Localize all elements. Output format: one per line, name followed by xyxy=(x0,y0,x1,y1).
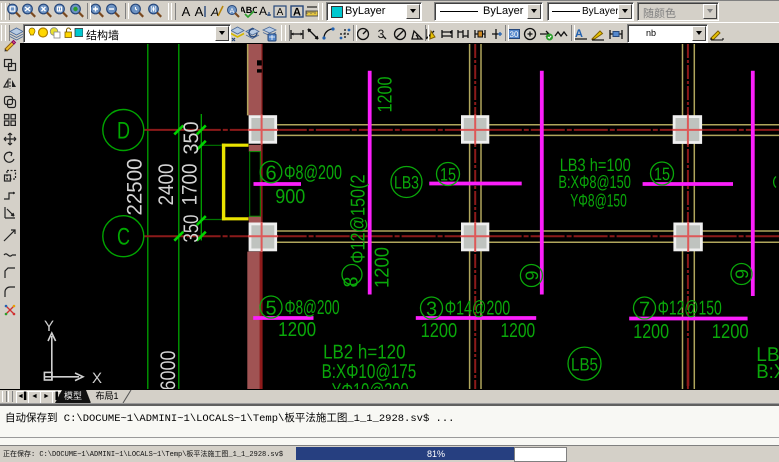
svg-text:15: 15 xyxy=(440,165,456,185)
wall stub top xyxy=(249,145,261,152)
svg-text:A: A xyxy=(277,7,284,18)
label 15b xyxy=(651,162,674,185)
wall stub bottom xyxy=(249,216,261,222)
svg-text:9: 9 xyxy=(732,269,752,279)
label LB3 bubble xyxy=(391,167,422,198)
olive column line 2 right xyxy=(480,44,482,390)
svg-text:A: A xyxy=(195,4,204,19)
red cross col C1 xyxy=(248,222,278,252)
svg-text:1200: 1200 xyxy=(712,321,749,343)
red axis D xyxy=(144,129,779,131)
svg-text:350: 350 xyxy=(180,122,203,155)
text toolbar grip xyxy=(168,3,173,20)
svg-text:YΦ8@150: YΦ8@150 xyxy=(570,190,627,210)
top toolbar row 1 background xyxy=(0,0,779,23)
nb combo xyxy=(627,24,708,43)
lineweight ByLayer combo xyxy=(547,2,634,21)
dim tick D-2400 xyxy=(174,125,183,134)
grip before dim toolbar xyxy=(281,25,286,41)
top toolbar row 2 background xyxy=(0,22,779,44)
progress bar filled xyxy=(296,447,514,460)
dim tick 350b xyxy=(197,141,206,150)
svg-text:ABC: ABC xyxy=(241,5,257,15)
grip before color combo xyxy=(318,3,323,20)
olive beam D top edge xyxy=(277,124,779,126)
svg-text:9: 9 xyxy=(522,270,542,280)
magenta rebar 15a xyxy=(429,182,521,186)
svg-text:8: 8 xyxy=(341,276,363,287)
column D2 xyxy=(462,117,488,143)
svg-text:Y: Y xyxy=(44,318,54,335)
svg-text:A: A xyxy=(259,4,267,18)
svg-text:A: A xyxy=(230,8,235,15)
axis bubble C xyxy=(103,216,144,257)
grid dim line 22500 xyxy=(147,44,149,390)
olive column line 2 left xyxy=(469,44,471,390)
label 7 xyxy=(634,297,722,321)
left modify toolbar strip xyxy=(0,43,21,390)
magenta rebar vertical 3 xyxy=(751,71,755,296)
magenta rebar 3 xyxy=(416,316,536,320)
column D3 xyxy=(674,117,701,143)
progress bar empty xyxy=(514,447,567,462)
olive column line 3 right xyxy=(693,44,695,390)
wall lower fill xyxy=(247,252,260,390)
red axis C xyxy=(144,235,779,237)
linetype ByLayer combo xyxy=(434,2,543,21)
olive beam C bottom edge xyxy=(277,241,779,243)
dim tick C-2400 xyxy=(174,232,183,241)
red axis segment col3 bottom xyxy=(687,350,690,386)
svg-text:6: 6 xyxy=(265,163,276,185)
svg-text:7: 7 xyxy=(639,299,650,321)
column D1 xyxy=(250,117,276,143)
yellow opening left xyxy=(222,144,225,221)
svg-text:1200: 1200 xyxy=(501,320,536,342)
svg-text:Φ14@200: Φ14@200 xyxy=(445,298,511,320)
grid dim line 1700/350 xyxy=(200,114,202,241)
svg-text:1700: 1700 xyxy=(178,164,201,206)
green opening rect xyxy=(250,152,261,217)
dim connector top xyxy=(201,144,221,146)
command window xyxy=(0,404,779,447)
svg-text:D: D xyxy=(117,118,130,145)
svg-text:1200: 1200 xyxy=(372,247,394,288)
svg-text:Φ8@200: Φ8@200 xyxy=(285,297,340,319)
plot style combo (disabled) xyxy=(637,2,719,21)
svg-text:B:X: B:X xyxy=(756,361,779,383)
label 3 xyxy=(421,297,511,321)
red axis vertical 2 xyxy=(474,44,476,390)
magenta rebar vertical 2 xyxy=(540,71,544,295)
axis bubble D xyxy=(103,110,144,151)
column C3 xyxy=(675,224,702,250)
wall upper fill xyxy=(247,44,262,115)
bubble arc right edge xyxy=(774,177,776,188)
svg-text:3: 3 xyxy=(378,27,385,41)
label 6 xyxy=(260,161,342,184)
layer combo xyxy=(23,24,231,43)
label 9a xyxy=(520,265,542,287)
red axis vertical 3 xyxy=(687,44,689,390)
label 5 xyxy=(260,296,340,320)
svg-text:A: A xyxy=(210,5,219,19)
olive column line 3 left xyxy=(682,44,684,390)
svg-text:LB5: LB5 xyxy=(571,355,598,375)
grid dim line 2400/6000 xyxy=(178,44,180,390)
wall notch 1 xyxy=(257,60,262,65)
dim tick C-350 xyxy=(197,232,206,241)
dim tick D-350 xyxy=(197,125,206,134)
magenta rebar 7 xyxy=(629,317,747,321)
olive beam C top edge xyxy=(277,230,779,232)
red cross col C2 xyxy=(461,222,490,252)
wall lower red edge xyxy=(259,252,261,390)
column C1 xyxy=(250,224,276,250)
olive beam D bottom edge xyxy=(277,134,779,136)
yellow opening top xyxy=(222,144,249,147)
magenta rebar 6 xyxy=(254,182,302,186)
svg-text:A: A xyxy=(575,28,583,40)
toolbar row1 grip xyxy=(1,3,6,20)
svg-text:5: 5 xyxy=(265,298,276,320)
svg-text:3: 3 xyxy=(426,299,437,321)
red cross col C3 xyxy=(673,222,703,252)
red cross col D3 xyxy=(673,115,703,145)
svg-text:Φ12@150(2: Φ12@150(2 xyxy=(348,175,370,264)
svg-text:1200: 1200 xyxy=(633,321,669,343)
svg-text:1200: 1200 xyxy=(375,77,397,113)
label LB5 bubble xyxy=(568,347,601,380)
color ByLayer combo xyxy=(326,2,422,21)
svg-text:2400: 2400 xyxy=(155,164,178,206)
label 9b xyxy=(731,264,752,285)
svg-text:Φ8@200: Φ8@200 xyxy=(284,162,342,184)
column C2 xyxy=(462,224,488,250)
status bar xyxy=(0,445,779,462)
toolbar row1 separator after zoom group xyxy=(87,3,91,19)
svg-text:22500: 22500 xyxy=(123,159,146,216)
label 8 rotated xyxy=(341,175,370,288)
wall notch 2 xyxy=(257,69,262,72)
svg-text:350: 350 xyxy=(180,215,203,243)
label 15a xyxy=(437,163,460,186)
svg-text:C: C xyxy=(117,224,130,251)
red cross col D1 xyxy=(248,115,278,145)
svg-text:30: 30 xyxy=(510,30,519,39)
yellow opening bottom xyxy=(222,217,249,220)
svg-text:6000: 6000 xyxy=(157,351,180,391)
svg-text:LB3: LB3 xyxy=(394,173,419,193)
red cross col D2 xyxy=(461,115,490,145)
svg-text:1200: 1200 xyxy=(421,320,458,342)
svg-text:900: 900 xyxy=(275,186,305,208)
svg-text:1200: 1200 xyxy=(278,319,316,341)
wall upper olive edge xyxy=(247,44,249,115)
dim tick 350c xyxy=(197,216,206,225)
svg-text:X: X xyxy=(92,370,102,387)
svg-text:B:XΦ8@150: B:XΦ8@150 xyxy=(558,172,631,192)
UCS icon xyxy=(44,333,83,381)
magenta rebar 15b xyxy=(643,182,733,186)
svg-text:15: 15 xyxy=(654,164,670,184)
magenta rebar 5 xyxy=(253,316,313,320)
red axis vertical 1 (wall) xyxy=(261,44,263,390)
model/layout tab bar xyxy=(0,390,779,404)
svg-text:A: A xyxy=(293,7,301,19)
drawing area xyxy=(20,43,779,390)
magenta rebar vertical 1 xyxy=(368,71,372,295)
svg-text:Φ12@150: Φ12@150 xyxy=(658,298,722,320)
svg-text:A: A xyxy=(182,4,191,19)
dim connector bottom xyxy=(201,219,221,221)
